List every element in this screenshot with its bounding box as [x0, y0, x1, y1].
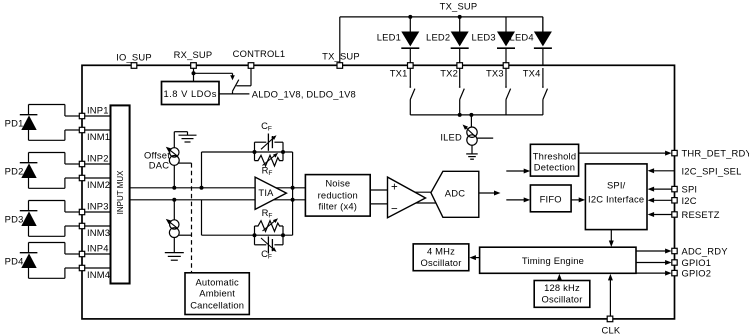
- svg-text:SPI: SPI: [682, 184, 698, 195]
- svg-text:Detection: Detection: [534, 161, 575, 172]
- wire PD3 to INM3: [65, 225, 80, 227]
- svg-text:GPIO1: GPIO1: [682, 257, 712, 268]
- wire CONTROL1 to switch: [250, 68, 252, 86]
- switch ALDO select: [233, 80, 239, 92]
- wire I2C_SPI_SEL: [652, 170, 675, 172]
- svg-text:CLK: CLK: [601, 325, 620, 336]
- wire RX_SUP to LDO: [193, 68, 195, 82]
- wire LED3 cathode to TX3: [505, 48, 507, 65]
- junction dot fb top left: [253, 150, 257, 154]
- svg-text:ALDO_1V8, DLDO_1V8: ALDO_1V8, DLDO_1V8: [252, 88, 356, 99]
- wire signal bottom: [130, 199, 306, 201]
- op-amp gain stage: [388, 177, 426, 218]
- current source offset DAC lower: [170, 220, 179, 229]
- wire ADC output: [479, 192, 497, 194]
- pin I2C: [672, 198, 677, 203]
- pin ADC_RDY: [672, 248, 677, 253]
- wire LED2 cathode to TX2: [459, 48, 461, 65]
- wire 128k to timing: [558, 277, 560, 280]
- svg-text:PD1: PD1: [5, 118, 24, 129]
- junction dot fb bot left: [253, 233, 257, 237]
- wire TX2 to switch: [459, 68, 461, 86]
- wire PD1 to INM1: [65, 129, 80, 131]
- svg-text:Ambient: Ambient: [199, 287, 235, 298]
- svg-text:IO_SUP: IO_SUP: [116, 51, 152, 62]
- wire PD3 to INP3: [65, 211, 80, 213]
- svg-text:LED2: LED2: [426, 32, 450, 43]
- svg-text:Timing Engine: Timing Engine: [522, 255, 584, 266]
- wire LED1 anode: [409, 17, 411, 32]
- photodiode PD2: [29, 152, 65, 154]
- wire timing to GPIO2: [636, 272, 668, 274]
- pin RX_SUP: [191, 63, 197, 69]
- svg-text:INM2: INM2: [87, 179, 110, 190]
- svg-text:RESETZ: RESETZ: [682, 209, 720, 220]
- wire LED driver bus: [410, 114, 543, 116]
- current source ILED: [467, 127, 477, 137]
- svg-text:TIA: TIA: [258, 187, 274, 198]
- svg-text:RX_SUP: RX_SUP: [174, 49, 213, 60]
- pin CLK: [607, 316, 613, 322]
- pin INM3: [79, 223, 84, 228]
- diode LED1: [401, 32, 419, 47]
- junction dot fb bot right: [281, 233, 285, 237]
- svg-text:LED4: LED4: [510, 32, 534, 43]
- wire filter to amp bottom: [370, 203, 388, 205]
- wire PD2 to INP2: [65, 163, 80, 165]
- wire switch TX3 to bus: [505, 100, 507, 115]
- wire dashed AAC control: [191, 163, 193, 273]
- wire feedback top tap: [201, 152, 203, 188]
- resistor RF top: [254, 152, 256, 161]
- wire offset dac upper to line: [173, 165, 175, 188]
- wire LED1 cathode to TX1: [409, 48, 411, 65]
- switch TX4: [543, 89, 548, 100]
- wire to threshold detection: [506, 170, 526, 172]
- pin THR_DET_RDY: [672, 150, 677, 155]
- block Noise reduction filter: [305, 175, 370, 217]
- wire switch TX1 to bus: [409, 100, 411, 115]
- wire LED4 right drop: [542, 17, 544, 32]
- wire timing to ADC_RDY: [636, 250, 668, 252]
- svg-text:Noise: Noise: [325, 177, 350, 188]
- junction dot lower dac: [172, 198, 176, 202]
- pin TX2: [457, 63, 463, 69]
- svg-text:TX_SUP: TX_SUP: [440, 1, 478, 12]
- junction dot TIA out bottom: [291, 198, 295, 202]
- wire to FIFO: [506, 199, 526, 201]
- junction dot TIA out top: [291, 186, 295, 190]
- diode LED3: [497, 32, 515, 47]
- svg-text:INM4: INM4: [87, 269, 110, 280]
- wire signal top: [130, 187, 306, 189]
- svg-text:TX3: TX3: [486, 67, 504, 78]
- pin INP1: [79, 113, 84, 118]
- svg-text:LED1: LED1: [377, 32, 401, 43]
- wire INM4 to mux: [85, 267, 111, 269]
- wire timing to GPIO1: [636, 262, 668, 264]
- svg-text:THR_DET_RDY: THR_DET_RDY: [682, 148, 749, 159]
- wire ILED right stub: [477, 137, 493, 139]
- wire threshold to THR_DET_RDY: [579, 152, 668, 154]
- pin INP3: [79, 209, 84, 214]
- wire INP2 to mux: [85, 163, 111, 165]
- junction dot RX_SUP: [192, 71, 196, 75]
- wire TX_SUP rail: [340, 16, 543, 18]
- junction dot LED2 anode: [458, 15, 462, 19]
- junction dot top tap: [200, 186, 204, 190]
- pin GPIO1: [672, 260, 677, 265]
- wire switch TX4 to bus: [542, 100, 544, 115]
- svg-text:+: +: [391, 181, 398, 193]
- svg-text:PD2: PD2: [5, 166, 24, 177]
- wire INP1 to mux: [85, 115, 111, 117]
- wire CLK: [609, 278, 611, 319]
- wire LED4 anode: [542, 17, 544, 32]
- wire TIA output vertical: [292, 152, 294, 235]
- wire amp to adc bottom: [410, 202, 438, 204]
- svg-text:I2C Interface: I2C Interface: [588, 194, 644, 205]
- svg-text:PD3: PD3: [5, 214, 24, 225]
- wire feedback bottom node line: [202, 234, 293, 236]
- wire INM3 to mux: [85, 225, 111, 227]
- wire PD1 to INP1: [65, 115, 80, 117]
- svg-text:4 MHz: 4 MHz: [427, 245, 455, 256]
- svg-text:DAC: DAC: [149, 160, 169, 171]
- svg-text:LED3: LED3: [472, 32, 496, 43]
- wire INP4 to mux: [85, 253, 111, 255]
- block Threshold Detection: [530, 144, 578, 176]
- pin INM2: [79, 175, 84, 180]
- capacitor CF bottom: [254, 235, 256, 245]
- svg-text:TX_SUP: TX_SUP: [322, 50, 360, 61]
- wire lower dac ctrl: [179, 234, 192, 236]
- wire switch TX2 to bus: [459, 100, 461, 115]
- svg-text:PD4: PD4: [5, 256, 24, 267]
- wire SPI to timing engine: [610, 230, 612, 244]
- adc U1: [431, 171, 479, 217]
- svg-text:ILED: ILED: [440, 132, 462, 143]
- wire lower dac to ground: [173, 237, 175, 252]
- junction dot LED1 anode: [408, 15, 412, 19]
- wire INM1 to mux: [85, 129, 111, 131]
- svg-text:INP4: INP4: [87, 243, 109, 254]
- junction dot fb top right: [281, 150, 285, 154]
- ground offset dac upper: [179, 134, 197, 136]
- svg-text:ADC: ADC: [445, 187, 465, 198]
- pin SPI: [672, 186, 677, 191]
- junction dot bus ILED: [469, 113, 473, 117]
- junction dot bus TX2: [458, 113, 462, 117]
- wire filter to amp top: [370, 189, 388, 191]
- svg-text:INPUT MUX: INPUT MUX: [116, 170, 125, 215]
- pin IO_SUP: [131, 63, 137, 69]
- wire TX1 to switch: [409, 68, 411, 86]
- wire LED3 anode: [505, 17, 507, 32]
- wire LED2 anode: [459, 17, 461, 32]
- block 128 kHz Oscillator: [534, 281, 590, 308]
- svg-text:TX4: TX4: [523, 67, 541, 78]
- block FIFO: [530, 185, 571, 212]
- wire branch down to switch: [232, 73, 234, 78]
- pin INM4: [79, 265, 84, 270]
- wire TX4 to switch: [542, 68, 544, 86]
- svg-text:ADC_RDY: ADC_RDY: [682, 245, 729, 256]
- block Timing Engine: [480, 247, 636, 273]
- pin CONTROL1: [248, 63, 254, 69]
- chip boundary (AFE outline): [82, 65, 675, 319]
- svg-text:Oscillator: Oscillator: [541, 294, 582, 305]
- wire feedback bottom tap: [201, 200, 203, 235]
- wire upper dac ctrl: [178, 162, 192, 164]
- wire switch to LDO output: [232, 91, 234, 94]
- svg-text:−: −: [391, 204, 398, 216]
- capacitor CF top: [254, 142, 256, 152]
- current source offset DAC upper: [170, 148, 179, 157]
- svg-text:INM3: INM3: [87, 227, 110, 238]
- pin TX3: [503, 63, 509, 69]
- photodiode PD4: [29, 242, 65, 244]
- pin INP4: [79, 251, 84, 256]
- ground offset dac lower: [165, 252, 184, 254]
- junction dot upper dac: [172, 186, 176, 190]
- pin TX1: [408, 63, 414, 69]
- wire LDO output: [219, 93, 249, 95]
- wire LED4 cathode to TX4: [542, 48, 544, 65]
- photodiode PD1: [29, 104, 65, 106]
- photodiode PD3: [29, 200, 65, 202]
- svg-text:128 kHz: 128 kHz: [544, 282, 580, 293]
- block Automatic Ambient Cancellation: [185, 273, 249, 315]
- wire amp to adc top: [408, 191, 437, 193]
- wire RESETZ: [652, 214, 675, 216]
- svg-text:Oscillator: Oscillator: [420, 257, 461, 268]
- switch TX1: [410, 89, 415, 100]
- svg-text:Threshold: Threshold: [533, 150, 577, 161]
- pin INM1: [79, 127, 84, 132]
- wire PD4 to INP4: [65, 253, 80, 255]
- wire TX_SUP drop to pin: [339, 17, 341, 64]
- svg-text:FIFO: FIFO: [540, 193, 562, 204]
- pin INP2: [79, 161, 84, 166]
- block SPI I2C Interface: [585, 164, 647, 230]
- resistor RF bottom: [254, 226, 256, 235]
- svg-text:Automatic: Automatic: [195, 276, 239, 287]
- wire timing to 4mhz: [473, 257, 479, 259]
- wire TX3 to switch: [505, 68, 507, 86]
- wire SPI: [652, 188, 675, 190]
- svg-text:TX1: TX1: [390, 67, 408, 78]
- wire upper dac to ground: [173, 132, 175, 148]
- svg-text:SPI/: SPI/: [607, 179, 626, 190]
- svg-text:I2C: I2C: [682, 195, 697, 206]
- svg-text:reduction: reduction: [318, 190, 358, 201]
- pin TX_SUP: [337, 63, 343, 69]
- svg-text:INP2: INP2: [87, 153, 109, 164]
- wire ILED to ground: [471, 145, 473, 153]
- svg-text:1.8 V LDOs: 1.8 V LDOs: [163, 88, 216, 99]
- wire I2C: [652, 199, 675, 201]
- svg-text:I2C_SPI_SEL: I2C_SPI_SEL: [682, 166, 742, 177]
- switch TX3: [506, 89, 511, 100]
- svg-text:TX2: TX2: [440, 67, 458, 78]
- block INPUT MUX: [111, 105, 130, 283]
- wire feedback top node line: [202, 151, 293, 153]
- svg-text:filter (x4): filter (x4): [318, 201, 357, 212]
- diode LED4: [534, 32, 552, 47]
- wire PD4 to INM4: [65, 267, 80, 269]
- svg-text:CONTROL1: CONTROL1: [233, 48, 286, 59]
- wire INP3 to mux: [85, 211, 111, 213]
- switch TX2: [460, 89, 465, 100]
- wire line to lower dac: [173, 200, 175, 220]
- diode LED2: [451, 32, 469, 47]
- svg-text:GPIO2: GPIO2: [682, 268, 712, 279]
- svg-text:INP1: INP1: [87, 105, 109, 116]
- block 1.8V LDOs: [162, 82, 220, 105]
- svg-text:INP3: INP3: [87, 201, 109, 212]
- pin GPIO2: [672, 270, 677, 275]
- pin RESETZ: [672, 212, 677, 217]
- wire RX_SUP branch right: [194, 72, 233, 74]
- ground ILED: [466, 153, 478, 155]
- wire bus to ILED: [470, 115, 472, 127]
- wire INM2 to mux: [85, 177, 111, 179]
- svg-text:Cancellation: Cancellation: [190, 299, 244, 310]
- block 4 MHz Oscillator: [413, 244, 469, 271]
- svg-text:INM1: INM1: [87, 131, 110, 142]
- wire PD2 to INM2: [65, 177, 80, 179]
- op-amp TIA: [255, 177, 286, 209]
- wire FIFO to SPI: [571, 199, 581, 201]
